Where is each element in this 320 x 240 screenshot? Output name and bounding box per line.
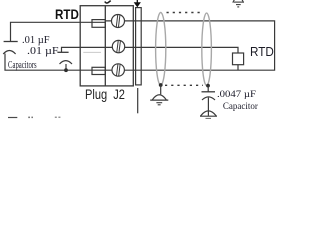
faint inner line of middle terminal	[83, 51, 101, 53]
cable shield ellipse left	[156, 13, 166, 86]
capacitor C1 curved plate	[3, 51, 15, 55]
capacitor C3 flat plate	[202, 91, 216, 93]
capacitor C1 flat plate	[4, 41, 18, 43]
ground G1 dash 2	[158, 104, 161, 106]
shield dashed line top	[167, 12, 201, 14]
label Capacitors	[8, 60, 37, 71]
ground G3 dash 1	[236, 4, 241, 6]
capacitor C3 curved plate	[202, 97, 215, 100]
junction dot C2 to bottom wire	[64, 68, 68, 72]
screw terminal 1	[112, 15, 125, 28]
cropped caption remnant marks at bottom	[8, 117, 60, 119]
pin 3 contact rect	[92, 67, 105, 74]
wire net 2: cap C2 stem corner to RTD box top	[62, 47, 239, 53]
label Plug J2	[85, 86, 125, 102]
ground G1 bar	[150, 99, 168, 101]
shield node dot right	[206, 84, 210, 88]
label .0047 uF	[217, 90, 256, 100]
ground G1 dome	[152, 95, 166, 100]
plug J2 inner divider	[104, 6, 106, 86]
wire net 1 right side: plug to far-right vertical, down, and bottom return (net 3)	[5, 21, 275, 70]
wire below clamp bar	[137, 88, 139, 113]
RTD sensor box	[233, 53, 244, 65]
screw terminal 2	[112, 40, 124, 52]
insertion arrow stem	[136, 0, 138, 3]
cable shield ellipse right	[202, 13, 212, 85]
pin 1 contact rect	[92, 20, 105, 28]
ground G1 stem	[160, 85, 162, 94]
label .01 uF (upper)	[22, 35, 50, 46]
plug J2 clamp bar (narrow rect)	[136, 8, 142, 85]
ground G3 dash 2	[237, 6, 239, 8]
wire from RTD lead 1: top-left corner run to plug pin 1	[11, 22, 106, 41]
RTD sensor bottom stem	[237, 65, 239, 71]
ground G3 (top right, cropped) dome	[233, 0, 244, 3]
capacitor C2 curved plate	[60, 61, 73, 64]
screw terminal 3	[112, 64, 124, 76]
tick mark above plug	[105, 1, 111, 3]
capacitor C2 lower stem	[65, 64, 67, 70]
capacitor C3 lower stem	[207, 98, 209, 116]
plug J2 outer body	[80, 6, 133, 86]
capacitor C3 stem	[207, 86, 209, 92]
shield dashed line bottom	[165, 84, 203, 86]
shield node dot left	[159, 83, 163, 87]
label RTD (left, bold)	[55, 6, 79, 22]
insertion arrow head	[134, 2, 141, 7]
capacitor C2 flat plate	[57, 51, 68, 53]
label Capacitor	[223, 101, 258, 111]
ground G1 dash 1	[156, 102, 162, 104]
ground G2 dash (cropped)	[206, 117, 212, 119]
ground G2 dome	[201, 111, 217, 116]
ground G3 bar	[234, 1, 244, 3]
ground G2 bar	[200, 115, 217, 117]
label .01 uF (lower)	[27, 46, 59, 57]
label RTD (right)	[250, 44, 274, 59]
